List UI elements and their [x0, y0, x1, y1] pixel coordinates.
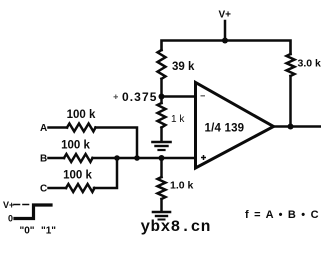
node +0.375	[159, 94, 165, 100]
wire A to junction	[96, 128, 138, 159]
svg-text:0: 0	[8, 214, 13, 224]
ground bottom	[153, 211, 170, 214]
wire B to non-inverting input	[93, 157, 196, 160]
svg-text:ybx8.cn: ybx8.cn	[141, 218, 211, 236]
wire C to junction	[94, 158, 117, 188]
svg-text:"1": "1"	[41, 226, 56, 237]
wire input B	[49, 157, 65, 160]
node A-B junction	[134, 155, 140, 161]
resistor 39k zigzag	[158, 50, 166, 79]
svg-text:3.0 k: 3.0 k	[298, 58, 321, 70]
svg-text:A: A	[40, 123, 47, 134]
wire V+ dashed level	[14, 204, 30, 206]
resistor 100k B	[64, 154, 93, 162]
svg-text:1.0 k: 1.0 k	[170, 180, 194, 192]
wire 1k to ground	[160, 128, 163, 142]
wire input C	[49, 187, 67, 190]
wire node to inverting input	[162, 95, 196, 98]
op-amp minus input marker	[201, 95, 206, 97]
svg-text:100 k: 100 k	[63, 170, 92, 182]
resistor 1.0k zigzag	[158, 177, 166, 199]
node output junction	[288, 124, 294, 130]
wire input A	[49, 126, 68, 129]
svg-text:0.375: 0.375	[122, 90, 158, 104]
node B-C junction	[114, 155, 120, 161]
ground divider	[153, 141, 171, 144]
svg-text:"0": "0"	[20, 226, 35, 237]
svg-text:B: B	[40, 154, 47, 165]
svg-text:100 k: 100 k	[61, 140, 90, 152]
svg-text:C: C	[40, 184, 47, 195]
svg-text:f = A • B • C: f = A • B • C	[245, 209, 320, 221]
svg-text:V+: V+	[3, 200, 14, 210]
wire 39k to node	[160, 79, 163, 103]
wire output	[274, 125, 321, 128]
svg-text:1/4 139: 1/4 139	[205, 123, 245, 135]
svg-text:1 k: 1 k	[171, 114, 185, 125]
resistor 100k C	[66, 184, 95, 192]
node summing junction	[159, 155, 165, 161]
wire waveform step	[15, 205, 51, 219]
node V+ junction	[222, 38, 228, 44]
wire 1.0k to ground	[160, 199, 163, 212]
svg-text:100 k: 100 k	[67, 109, 96, 121]
wire junction to 1.0k	[160, 158, 163, 177]
svg-text:V+: V+	[219, 10, 232, 21]
resistor 100k A	[67, 124, 96, 132]
svg-text:39 k: 39 k	[172, 61, 195, 73]
resistor 1k zigzag	[158, 103, 166, 128]
op-amp U1 1/4 LM139	[196, 83, 274, 169]
wire V+ rail	[162, 41, 291, 55]
wire V+ stub	[224, 21, 227, 41]
wire 3.0k to output	[289, 76, 292, 127]
resistor 3.0k zigzag	[287, 54, 295, 76]
op-amp plus input marker	[201, 155, 206, 160]
